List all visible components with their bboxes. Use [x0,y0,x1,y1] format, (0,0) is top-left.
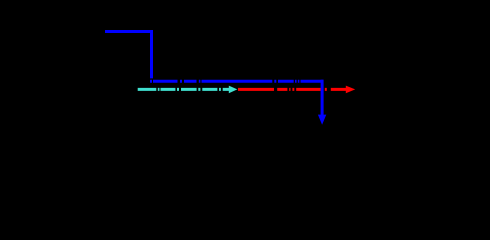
red dash-dot rise-time arrow [238,86,355,94]
blue dash-dot delayed trace (horizontal) [150,80,324,83]
blue solid step trace (input step) [105,30,152,78]
blue vertical down arrow (marks delayed step instant) [318,80,326,125]
cyan dash-dot dead-time arrow [138,86,238,94]
